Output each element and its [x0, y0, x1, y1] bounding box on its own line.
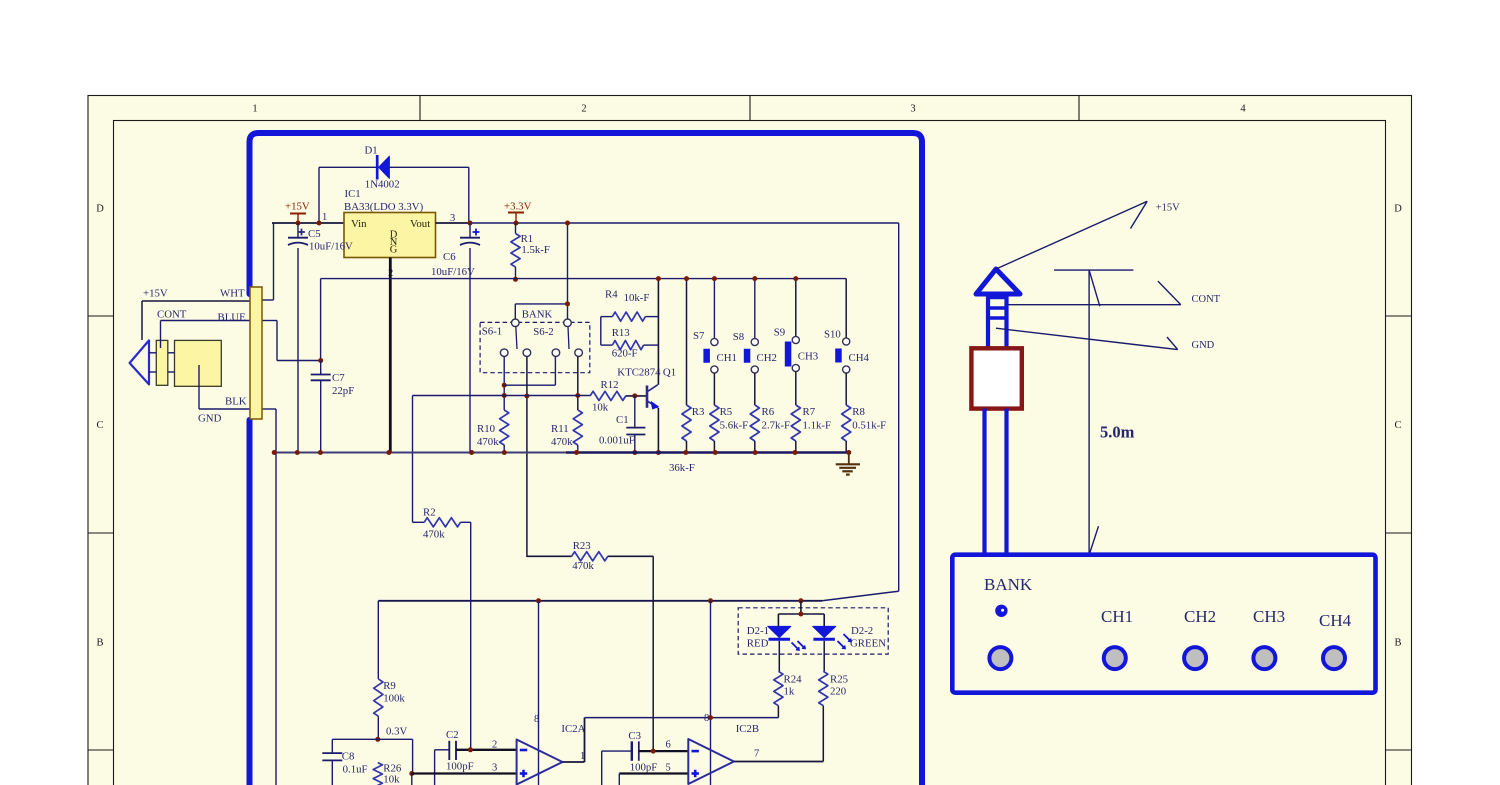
wire S7 feed: [713, 279, 715, 339]
switch S6 dashed box: [480, 322, 590, 372]
plug triangle: [130, 340, 149, 384]
ground rail: [274, 452, 849, 454]
wire S6 pin D down: [577, 357, 579, 411]
junction LED feed: [798, 598, 803, 603]
svg-text:0.1uF: 0.1uF: [343, 764, 368, 776]
plug small contact box: [156, 340, 168, 385]
svg-text:R2: R2: [423, 507, 436, 519]
junction base rail B: [524, 394, 529, 399]
sheet outer border: [88, 96, 1412, 785]
junction S6 feed: [565, 221, 570, 226]
svg-text:470k: 470k: [477, 436, 499, 448]
resistor R25: [819, 641, 828, 762]
wire IC2A pin3: [412, 772, 517, 774]
svg-text:BLK: BLK: [225, 396, 247, 408]
svg-text:8: 8: [534, 714, 539, 725]
svg-text:10uF/16V: 10uF/16V: [309, 241, 353, 253]
wire pin3 to rail: [436, 222, 471, 224]
svg-text:R7: R7: [803, 406, 816, 418]
svg-text:1: 1: [580, 751, 585, 762]
junction base rail A: [502, 393, 507, 398]
ic IC1 body: [344, 213, 436, 258]
antenna roof triangle: [976, 269, 1020, 294]
sheet inner border: [114, 121, 1386, 785]
resistor R24: [774, 641, 783, 718]
svg-text:B: B: [96, 638, 103, 649]
wire S8 feed: [754, 279, 756, 339]
wire LED feed: [778, 601, 824, 627]
svg-text:22pF: 22pF: [332, 385, 354, 397]
svg-text:1: 1: [252, 104, 257, 115]
svg-text:5.0m: 5.0m: [1100, 423, 1135, 442]
resistor R1: [511, 223, 520, 279]
junction collector rail: [656, 276, 661, 281]
svg-text:R25: R25: [830, 674, 848, 686]
switch S6-1 arm: [516, 327, 517, 350]
junction A-C tie: [502, 383, 507, 388]
svg-text:CH2: CH2: [757, 352, 777, 364]
frame row labels: [96, 204, 1402, 649]
led D2-1: [768, 626, 791, 639]
svg-text:220: 220: [830, 686, 846, 698]
junction Q1 base node: [632, 393, 637, 398]
svg-text:GND: GND: [1192, 340, 1215, 351]
diode D1: [377, 155, 389, 180]
power port +3.3V: [504, 201, 532, 224]
svg-text:CH2: CH2: [1184, 607, 1216, 626]
junction C6: [468, 221, 473, 226]
svg-text:C8: C8: [342, 751, 355, 763]
junction C7 node: [318, 358, 323, 363]
svg-text:CH4: CH4: [1319, 611, 1352, 630]
svg-text:BA33(LDO 3.3V): BA33(LDO 3.3V): [344, 201, 424, 213]
svg-text:100pF: 100pF: [630, 762, 658, 774]
svg-text:CH3: CH3: [1253, 607, 1285, 626]
svg-text:C: C: [1394, 420, 1401, 431]
svg-text:R6: R6: [762, 406, 775, 418]
svg-text:3: 3: [492, 763, 497, 774]
led dashed box: [738, 608, 888, 654]
svg-text:100pF: 100pF: [446, 761, 474, 773]
wire D1 anode to Vout rail: [389, 167, 468, 223]
svg-text:5.6k-F: 5.6k-F: [720, 420, 749, 432]
resistor R4: [601, 312, 659, 321]
resistor R7: [791, 405, 800, 453]
frame column labels: [252, 104, 1246, 115]
svg-text:R13: R13: [612, 327, 630, 339]
wire S10 feed: [845, 279, 847, 338]
svg-text:C3: C3: [628, 730, 641, 742]
svg-text:R23: R23: [573, 540, 591, 552]
wire R4-R13 left tie: [600, 317, 602, 346]
capacitor C7: [311, 361, 331, 453]
svg-text:2: 2: [492, 740, 497, 751]
svg-text:R4: R4: [605, 289, 618, 301]
junction R1 bottom: [513, 277, 518, 282]
svg-text:D: D: [1394, 204, 1402, 215]
switch S10: [843, 338, 850, 345]
junction C2 R2 node: [468, 747, 473, 752]
switch S7: [711, 338, 718, 345]
junction base rail D: [575, 393, 580, 398]
svg-text:6: 6: [666, 740, 671, 751]
wire IC2B pin8/pin4: [710, 601, 712, 785]
svg-text:S6-2: S6-2: [533, 326, 553, 338]
callout +15V: [996, 201, 1147, 269]
svg-text:8: 8: [704, 713, 709, 724]
junction +15V rail: [296, 221, 301, 226]
thick blue block border lower-left: [247, 420, 253, 785]
svg-text:0.001uF: 0.001uF: [599, 435, 635, 447]
ic1 gnd pin wire: [389, 258, 392, 453]
resistor R8: [842, 405, 851, 453]
frame row ticks: [88, 316, 1412, 750]
wire A-C tie: [504, 357, 555, 386]
svg-text:D2-2: D2-2: [851, 625, 873, 637]
resistor R13: [601, 341, 659, 350]
switch S8: [751, 338, 758, 345]
svg-text:GND: GND: [198, 413, 222, 425]
antenna mast lower: [985, 409, 1007, 556]
receiver panel box: [952, 555, 1375, 693]
ground rail junctions: [272, 450, 852, 455]
svg-text:C5: C5: [308, 228, 321, 240]
plug contact links: [149, 353, 175, 372]
sheet background: [88, 95, 1412, 785]
junction +3.3V: [514, 221, 519, 226]
wire 0.3V node: [332, 739, 412, 773]
wire WHT left: [142, 301, 250, 340]
svg-text:4: 4: [1240, 104, 1246, 115]
op-amp IC2A: [517, 740, 563, 785]
resistor R6: [750, 405, 759, 453]
svg-text:BANK: BANK: [522, 309, 553, 321]
svg-text:C7: C7: [332, 372, 345, 384]
frame column ticks: [420, 96, 1079, 121]
svg-text:1: 1: [322, 212, 327, 223]
svg-text:36k-F: 36k-F: [669, 462, 695, 474]
junction S9 feed: [793, 276, 798, 281]
svg-text:R3: R3: [692, 406, 705, 418]
switch common rail: [321, 279, 847, 361]
svg-text:CONT: CONT: [1192, 294, 1221, 305]
wire BLK/GND from plug: [199, 365, 250, 409]
svg-text:R8: R8: [852, 406, 865, 418]
wire Q1 emitter: [657, 408, 659, 453]
resistor R5: [710, 405, 719, 453]
svg-text:+15V: +15V: [1156, 203, 1180, 214]
wire WHT right to +15V rail: [262, 223, 274, 300]
svg-text:C: C: [96, 420, 103, 431]
junction D1 cathode: [317, 221, 322, 226]
op-amp IC2B: [688, 739, 734, 784]
svg-text:470k: 470k: [551, 436, 573, 448]
junction IC2B power: [708, 598, 713, 603]
svg-text:470k: 470k: [423, 529, 445, 541]
wire S9 to R7: [795, 372, 797, 405]
svg-text:R24: R24: [784, 674, 803, 686]
svg-text:IC2B: IC2B: [736, 723, 759, 735]
resistor R12: [590, 391, 626, 400]
svg-text:CONT: CONT: [157, 309, 187, 321]
svg-text:R9: R9: [383, 680, 396, 692]
wire IC2B pin5: [619, 774, 688, 785]
wire S10 to R8: [845, 373, 847, 405]
svg-text:IC2A: IC2A: [561, 723, 585, 735]
panel buttons: [989, 647, 1345, 669]
callout CONT: [1008, 281, 1181, 305]
svg-text:S10: S10: [824, 329, 841, 341]
svg-text:10k: 10k: [383, 774, 400, 785]
resistor R9: [374, 679, 383, 739]
wire IC2B output: [734, 761, 823, 763]
svg-text:R12: R12: [601, 379, 619, 391]
junction Q1 emitter ground: [656, 450, 661, 455]
svg-text:C6: C6: [443, 251, 456, 263]
svg-text:S7: S7: [693, 330, 705, 342]
svg-text:IC1: IC1: [345, 188, 361, 200]
svg-text:CH1: CH1: [717, 352, 737, 364]
switch S6-1 pole pin: [512, 319, 520, 327]
resistor R3: [682, 405, 691, 453]
connector J1: [250, 287, 262, 419]
junction pin3 node: [409, 771, 414, 776]
svg-text:1.1k-F: 1.1k-F: [803, 420, 832, 432]
svg-text:3: 3: [910, 104, 915, 115]
svg-text:S8: S8: [733, 331, 744, 343]
led D2-2: [813, 626, 836, 639]
svg-text:100k: 100k: [383, 693, 405, 705]
switch S6 throw pins: [500, 349, 582, 357]
led D2-1 arrows: [792, 641, 806, 650]
bank indicator dot: [995, 605, 1007, 617]
svg-text:G: G: [390, 245, 398, 256]
dimension line 5.0m: [1054, 270, 1133, 555]
svg-text:C2: C2: [446, 729, 459, 741]
junction C3 R23 node: [651, 749, 656, 754]
svg-text:GREEN: GREEN: [850, 638, 886, 650]
svg-text:Vin: Vin: [351, 218, 367, 230]
wire GND down from connector: [262, 409, 276, 785]
svg-text:+15V: +15V: [143, 288, 168, 300]
transistor Q1: [647, 385, 658, 409]
wire S6 pin B down: [526, 357, 528, 558]
svg-text:S6-1: S6-1: [482, 326, 502, 338]
+3.3V top rail: [470, 222, 899, 224]
svg-text:+15V: +15V: [285, 201, 310, 213]
svg-text:Vout: Vout: [410, 218, 430, 230]
svg-text:2: 2: [581, 104, 586, 115]
svg-text:BLUE: BLUE: [218, 312, 247, 324]
switch S9: [785, 336, 800, 371]
wire Q1 collector: [657, 279, 659, 385]
switch S6-2 arm: [568, 327, 569, 350]
antenna feed box: [971, 348, 1021, 408]
svg-text:KTC2874: KTC2874: [617, 366, 661, 378]
svg-text:BANK: BANK: [984, 575, 1033, 594]
wire D1 cathode to Vin rail: [319, 167, 377, 223]
junction S8 feed: [752, 276, 757, 281]
junction S7 feed: [712, 276, 717, 281]
junction IC2A power: [536, 598, 541, 603]
plug body box: [175, 340, 222, 386]
wire S9 feed: [795, 279, 797, 337]
wire pin3 below: [411, 774, 413, 785]
svg-text:R5: R5: [720, 406, 733, 418]
capacitor C8: [322, 739, 342, 785]
svg-text:+3.3V: +3.3V: [504, 201, 532, 213]
switch S6-2 pole pin: [564, 319, 572, 327]
3.3V right-side wire: [378, 223, 898, 679]
wire S7 to R5: [713, 373, 715, 405]
svg-text:D1: D1: [365, 145, 378, 157]
junction IC2B pin8 out1: [708, 715, 713, 720]
junction S6 link: [565, 301, 570, 306]
junction R3 feed: [684, 276, 689, 281]
svg-text:CH1: CH1: [1101, 607, 1133, 626]
svg-text:R10: R10: [477, 423, 495, 435]
wire S6 pin A down: [503, 357, 505, 411]
wire rail to S6-2: [567, 223, 569, 319]
junction 0.3V node: [375, 737, 380, 742]
svg-text:RED: RED: [747, 638, 769, 650]
wire +15V rail to pin 1: [272, 222, 344, 224]
wire R3 feed: [686, 279, 688, 405]
resistor R10: [500, 410, 509, 453]
wire R12 to base: [626, 395, 647, 397]
wire IC2A output: [563, 718, 779, 762]
svg-text:1N4002: 1N4002: [365, 179, 400, 191]
antenna mast upper: [986, 294, 1009, 349]
svg-text:470k: 470k: [572, 560, 594, 572]
svg-text:5: 5: [666, 763, 671, 774]
capacitor C2: [435, 741, 517, 785]
callout GND: [996, 328, 1178, 349]
wire IC2A pin8/pin4: [538, 601, 540, 785]
thick blue block border: [250, 133, 923, 785]
svg-text:D2-1: D2-1: [747, 625, 769, 637]
wire S8 to R6: [754, 373, 756, 405]
svg-text:10uF/16V: 10uF/16V: [431, 266, 475, 278]
svg-text:Q1: Q1: [663, 366, 676, 378]
svg-text:1k: 1k: [784, 686, 795, 698]
wire S6 top link: [515, 304, 567, 319]
svg-text:C1: C1: [616, 414, 629, 426]
power port +15V: [285, 201, 310, 224]
svg-text:1.5k-F: 1.5k-F: [521, 244, 550, 256]
capacitor C5: [288, 223, 308, 453]
pin name GND vertical: [390, 230, 398, 256]
svg-text:2.7k-F: 2.7k-F: [762, 420, 791, 432]
resistor R26: [373, 763, 382, 785]
svg-text:WHT: WHT: [220, 288, 245, 300]
resistor R11: [573, 410, 582, 453]
svg-text:CH3: CH3: [798, 351, 818, 363]
led D2-2 arrows: [838, 634, 852, 649]
svg-text:10k-F: 10k-F: [624, 292, 650, 304]
svg-text:B: B: [1394, 638, 1401, 649]
svg-text:R11: R11: [551, 423, 569, 435]
ground symbol: [836, 453, 860, 475]
svg-text:7: 7: [754, 749, 759, 760]
svg-text:CH4: CH4: [849, 352, 870, 364]
wire BLUE/CONT left: [161, 321, 251, 349]
svg-text:D: D: [96, 204, 104, 215]
svg-text:0.51k-F: 0.51k-F: [852, 420, 886, 432]
capacitor C6: [460, 223, 480, 453]
wire BLUE/CONT right to C7: [262, 321, 321, 361]
capacitor C1: [626, 396, 645, 453]
svg-text:10k: 10k: [592, 402, 609, 414]
junction C1 ground: [632, 450, 637, 455]
svg-text:620-F: 620-F: [612, 348, 638, 360]
svg-text:S9: S9: [774, 327, 785, 339]
base rail: [413, 396, 591, 523]
resistor R23: [527, 552, 653, 751]
svg-text:0.3V: 0.3V: [386, 726, 407, 738]
capacitor C3: [602, 741, 689, 785]
junction LED tie: [798, 612, 803, 617]
resistor R2: [413, 518, 471, 750]
